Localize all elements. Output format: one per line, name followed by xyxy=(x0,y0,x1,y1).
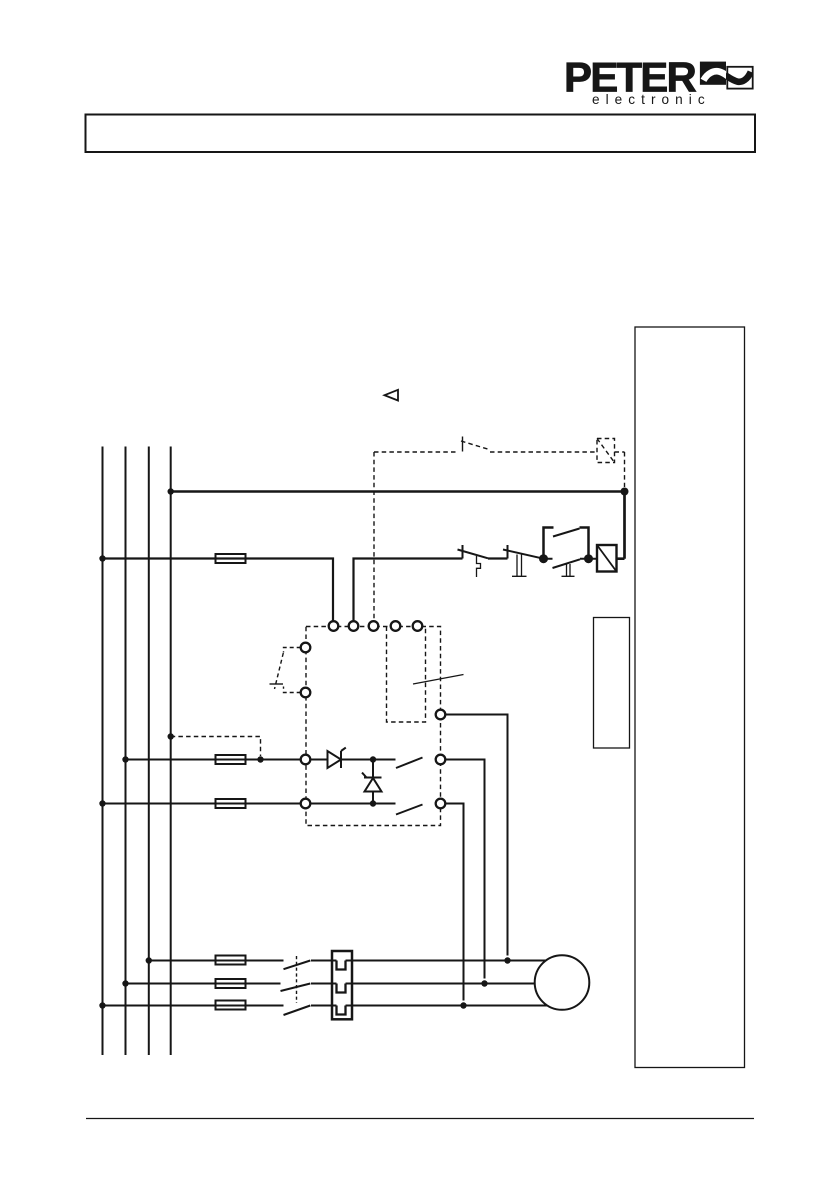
logo flag white square xyxy=(727,67,752,89)
fuse F7 xyxy=(216,1001,246,1010)
node coil return xyxy=(621,488,629,496)
holding contact K1 rail right xyxy=(580,528,589,559)
dashed thermistor wire horizontal xyxy=(374,451,456,453)
title box xyxy=(86,115,756,153)
info column rectangle (right) xyxy=(635,327,745,1068)
dashed control feed from N xyxy=(171,737,261,757)
wire phase feed upper xyxy=(126,759,301,761)
start button S2 actuator xyxy=(562,564,575,576)
fuse F5 xyxy=(216,956,246,965)
small label rectangle xyxy=(594,618,630,749)
terminal out 1 xyxy=(436,710,446,720)
node on L1 lower xyxy=(99,800,105,806)
node out 2 xyxy=(481,980,487,986)
contactor pole 3 blade xyxy=(284,1006,311,1016)
thermistor relay box dashed xyxy=(597,439,615,463)
stop button S0 blade xyxy=(458,550,489,559)
node parallel left xyxy=(539,554,548,563)
node V bridge bottom xyxy=(370,800,376,806)
terminal out 2 xyxy=(436,755,446,765)
terminal out 3 xyxy=(436,799,446,809)
thyristor V1 wire xyxy=(310,759,395,761)
button S1 tick xyxy=(507,545,509,559)
bypass module dashed box xyxy=(387,627,426,723)
motor line 1 xyxy=(149,960,546,962)
soft starter outline dashed xyxy=(306,627,441,826)
supply line L1 xyxy=(102,447,104,1056)
supply line L3 xyxy=(148,447,150,1056)
logo wave black part xyxy=(725,72,751,82)
node on L2 xyxy=(122,756,128,762)
terminal 4 xyxy=(391,621,401,631)
annotation leader xyxy=(413,675,464,685)
supply line N xyxy=(170,447,172,1056)
node L2 xyxy=(122,980,128,986)
node L3 top xyxy=(146,957,152,963)
wire phase feed lower xyxy=(103,803,301,805)
bypass blade upper xyxy=(396,758,423,769)
motor M1 xyxy=(535,955,590,1010)
terminal input upper xyxy=(301,755,311,765)
terminal enable top xyxy=(301,643,311,653)
holding contact K1 blade xyxy=(553,529,580,537)
wire control fuse feed xyxy=(103,559,334,622)
contactor linkage dashed xyxy=(296,956,298,1003)
fuse F4 xyxy=(216,799,246,808)
wire lower through xyxy=(310,803,395,805)
thermistor contact tick xyxy=(462,437,464,452)
motor line 2 xyxy=(126,983,535,985)
holding contact K1 rail left xyxy=(544,528,554,559)
overload heater jog 2 xyxy=(337,984,346,993)
output wire T1 xyxy=(445,715,507,956)
button S1 actuator xyxy=(512,555,527,577)
terminal enable bottom xyxy=(301,688,311,698)
wire through start branch xyxy=(544,558,598,560)
overload heater jog 3 xyxy=(337,1006,346,1015)
fuse F3 xyxy=(216,755,246,764)
node L1 xyxy=(99,1002,105,1008)
output wire T3 xyxy=(445,804,463,1001)
terminal input lower xyxy=(301,799,311,809)
node on L1 xyxy=(99,555,105,561)
dashed thermistor wire vertical xyxy=(373,452,375,621)
footer rule xyxy=(86,1118,754,1120)
terminal 1 xyxy=(329,621,339,631)
fuse F1 xyxy=(216,554,246,563)
node V bridge top xyxy=(370,756,376,762)
stop button S0 tick xyxy=(462,545,464,559)
logo wave white part xyxy=(704,71,729,80)
thyristor V2 branch xyxy=(372,760,374,804)
motor line 3 xyxy=(103,1005,548,1007)
supply line L2 xyxy=(125,447,127,1056)
stop button S0 latch symbol xyxy=(477,556,481,577)
thyristor V2 xyxy=(365,778,382,792)
node out 1 xyxy=(504,957,510,963)
contactor coil K1M xyxy=(597,545,617,572)
dashed wire to relay box xyxy=(490,451,597,453)
thermistor contact blade xyxy=(461,441,488,449)
node dashed join xyxy=(257,756,263,762)
start button S2 blade xyxy=(553,559,581,568)
dashed wire relay to node xyxy=(615,452,625,487)
button S1 blade xyxy=(503,550,544,559)
contactor pole 1 blade xyxy=(284,961,311,970)
marker triangle xyxy=(385,390,399,401)
overload relay F2 box xyxy=(332,951,352,1019)
node parallel right xyxy=(584,554,593,563)
output wire T2 xyxy=(445,760,484,979)
thyristor V1 xyxy=(328,751,342,768)
external enable contact dashed xyxy=(284,648,301,653)
wire bus to coil return xyxy=(171,490,625,493)
terminal 5 xyxy=(413,621,423,631)
wire coil to return xyxy=(617,492,625,559)
bypass blade lower xyxy=(396,805,423,815)
contactor pole 2 blade xyxy=(281,984,311,992)
terminal 3 xyxy=(369,621,379,631)
logo flag black square xyxy=(700,62,726,85)
node on N xyxy=(168,733,174,739)
wire control from terminal 2 xyxy=(354,559,463,622)
node on N line xyxy=(168,488,174,494)
fuse F6 xyxy=(216,979,246,988)
node out 3 xyxy=(460,1002,466,1008)
wire between buttons xyxy=(488,557,508,559)
svg-text:electronic: electronic xyxy=(592,92,711,107)
terminal 2 xyxy=(349,621,359,631)
overload heater jog 1 xyxy=(337,961,346,970)
